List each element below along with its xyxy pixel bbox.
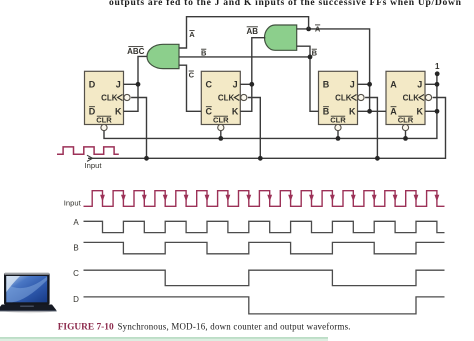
junction dot 1/J: [435, 82, 440, 87]
laptop icon (decoration): [0, 273, 57, 313]
svg-text:J: J: [417, 80, 422, 90]
svg-text:AB: AB: [247, 27, 259, 36]
svg-text:FIGURE 7-10: FIGURE 7-10: [58, 322, 114, 332]
svg-text:C: C: [206, 107, 213, 117]
junction dot CLR/FFB: [336, 136, 341, 141]
wire FF D CLK drop: [131, 98, 146, 159]
wire G1 output to FFD J,K: [124, 56, 148, 111]
svg-text:K: K: [349, 107, 356, 117]
timing row D waveform: [84, 297, 445, 314]
wire CLR rail (all CLR to logic 1): [104, 74, 437, 139]
wire Abar (FFA Qbar to FFB K, up to gates): [297, 29, 386, 111]
flip-flop UD (JK, labels D/J/CLK/Dbar/K/CLR): [85, 71, 124, 124]
svg-text:A: A: [390, 107, 397, 117]
wire clock rail (Input to all CLK): [88, 98, 446, 159]
svg-text:K: K: [115, 107, 122, 117]
svg-text:Input: Input: [64, 198, 82, 207]
svg-text:CLK: CLK: [101, 94, 118, 103]
svg-text:B: B: [323, 107, 330, 117]
svg-text:D: D: [73, 295, 79, 304]
junction dot 1/K: [435, 109, 440, 114]
svg-text:CLR: CLR: [213, 115, 229, 124]
svg-text:CLR: CLR: [330, 115, 346, 124]
junction dot G2out/FFC-J: [249, 82, 254, 87]
junction dot G1out/FFD-J: [136, 82, 141, 87]
timing row Input waveform: [84, 191, 445, 207]
svg-text:Synchronous, MOD-16, down coun: Synchronous, MOD-16, down counter and ou…: [118, 321, 351, 331]
svg-text:B: B: [323, 80, 330, 90]
wire FF C CLK drop: [248, 98, 260, 159]
and-gate G1 (3-input, output ABCbar): [147, 44, 179, 68]
svg-text:ABC: ABC: [127, 47, 145, 56]
svg-text:J: J: [116, 80, 121, 90]
junction dot clock/FFB: [375, 156, 380, 161]
and-gate G2 (2-input, output ABbar): [265, 25, 297, 50]
svg-text:D: D: [89, 80, 96, 90]
bottom green band: [0, 337, 328, 341]
svg-text:CLR: CLR: [96, 115, 112, 124]
wire Cbar (FFC Qbar to G1): [179, 65, 201, 111]
svg-text:A: A: [189, 30, 195, 39]
svg-text:A: A: [315, 24, 321, 33]
svg-text:C: C: [189, 70, 195, 79]
wire FF B CLK drop: [365, 98, 377, 159]
timing row B waveform: [84, 242, 445, 253]
junction dot clock/FFD: [144, 156, 149, 161]
junction dot Bbar: [308, 55, 313, 60]
wire Abar riser to G1: [179, 17, 309, 48]
svg-text:outputs are fed to the J and K: outputs are fed to the J and K inputs of…: [109, 0, 462, 8]
svg-text:B: B: [201, 49, 207, 58]
junction dot Abar branch: [306, 27, 311, 32]
junction dot clock/FFC: [258, 156, 263, 161]
svg-text:C: C: [206, 80, 213, 90]
svg-text:CLR: CLR: [398, 115, 414, 124]
timing row A waveform: [84, 221, 445, 232]
flip-flop UB (JK, labels B/J/CLK/Bbar/K/CLR): [319, 71, 358, 124]
svg-text:J: J: [233, 80, 238, 90]
svg-text:D: D: [89, 107, 96, 117]
junction dot Abar/FFB-J: [367, 82, 372, 87]
junction dot CLR/FFC: [218, 136, 223, 141]
wire FF A J to 1: [425, 83, 437, 85]
svg-text:B: B: [73, 243, 78, 252]
svg-text:CLK: CLK: [218, 94, 235, 103]
timing row Input falling-edge arrows: [100, 195, 105, 202]
terminal dot under 1: [435, 71, 440, 76]
svg-text:K: K: [417, 107, 424, 117]
wire Bbar (FFB Qbar up to G2 and across to G1): [179, 46, 319, 111]
wire FF C CLR stub: [220, 131, 222, 139]
svg-text:B: B: [312, 49, 318, 58]
svg-text:K: K: [232, 107, 239, 117]
svg-text:CLK: CLK: [335, 94, 352, 103]
junction dot Abar/FFB-K: [367, 109, 372, 114]
wire G2 output to FFC J,K: [240, 38, 265, 112]
svg-text:J: J: [350, 80, 355, 90]
svg-text:1: 1: [435, 62, 440, 71]
input clock waveform symbol (schematic): [57, 147, 119, 154]
timing row C waveform: [84, 270, 445, 285]
svg-text:CLK: CLK: [403, 94, 420, 103]
flip-flop UC (JK, labels C/J/CLK/Cbar/K/CLR): [201, 71, 240, 124]
wire FF A K to 1: [425, 110, 437, 112]
flip-flop UA (JK, labels A/J/CLK/Abar/K/CLR): [386, 71, 425, 124]
wire FF A CLR stub: [405, 131, 407, 139]
svg-text:C: C: [73, 269, 79, 278]
input arrowhead on clock rail: [87, 155, 93, 161]
svg-text:A: A: [73, 218, 79, 227]
wire FF B J to Abar: [358, 83, 370, 85]
wire FF B CLR stub: [337, 131, 339, 139]
svg-text:Input: Input: [85, 161, 103, 170]
svg-text:A: A: [390, 80, 397, 90]
junction dot CLR/FFA: [403, 136, 408, 141]
